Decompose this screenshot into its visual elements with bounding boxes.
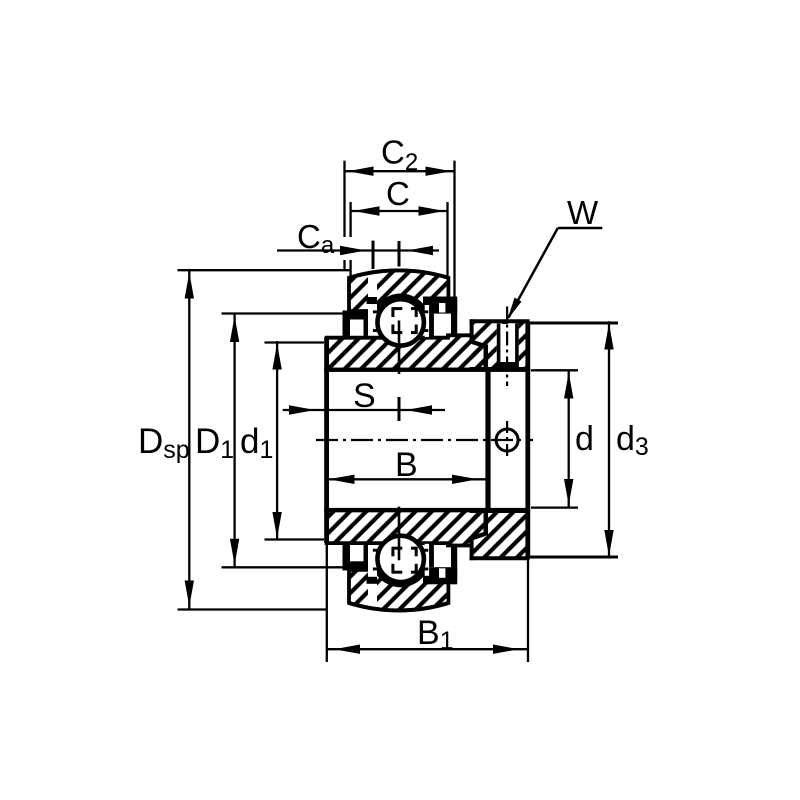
svg-text:d: d — [575, 420, 594, 458]
svg-text:S: S — [353, 377, 376, 415]
svg-text:B: B — [395, 446, 418, 484]
svg-text:C: C — [386, 175, 410, 212]
svg-text:W: W — [567, 194, 599, 231]
